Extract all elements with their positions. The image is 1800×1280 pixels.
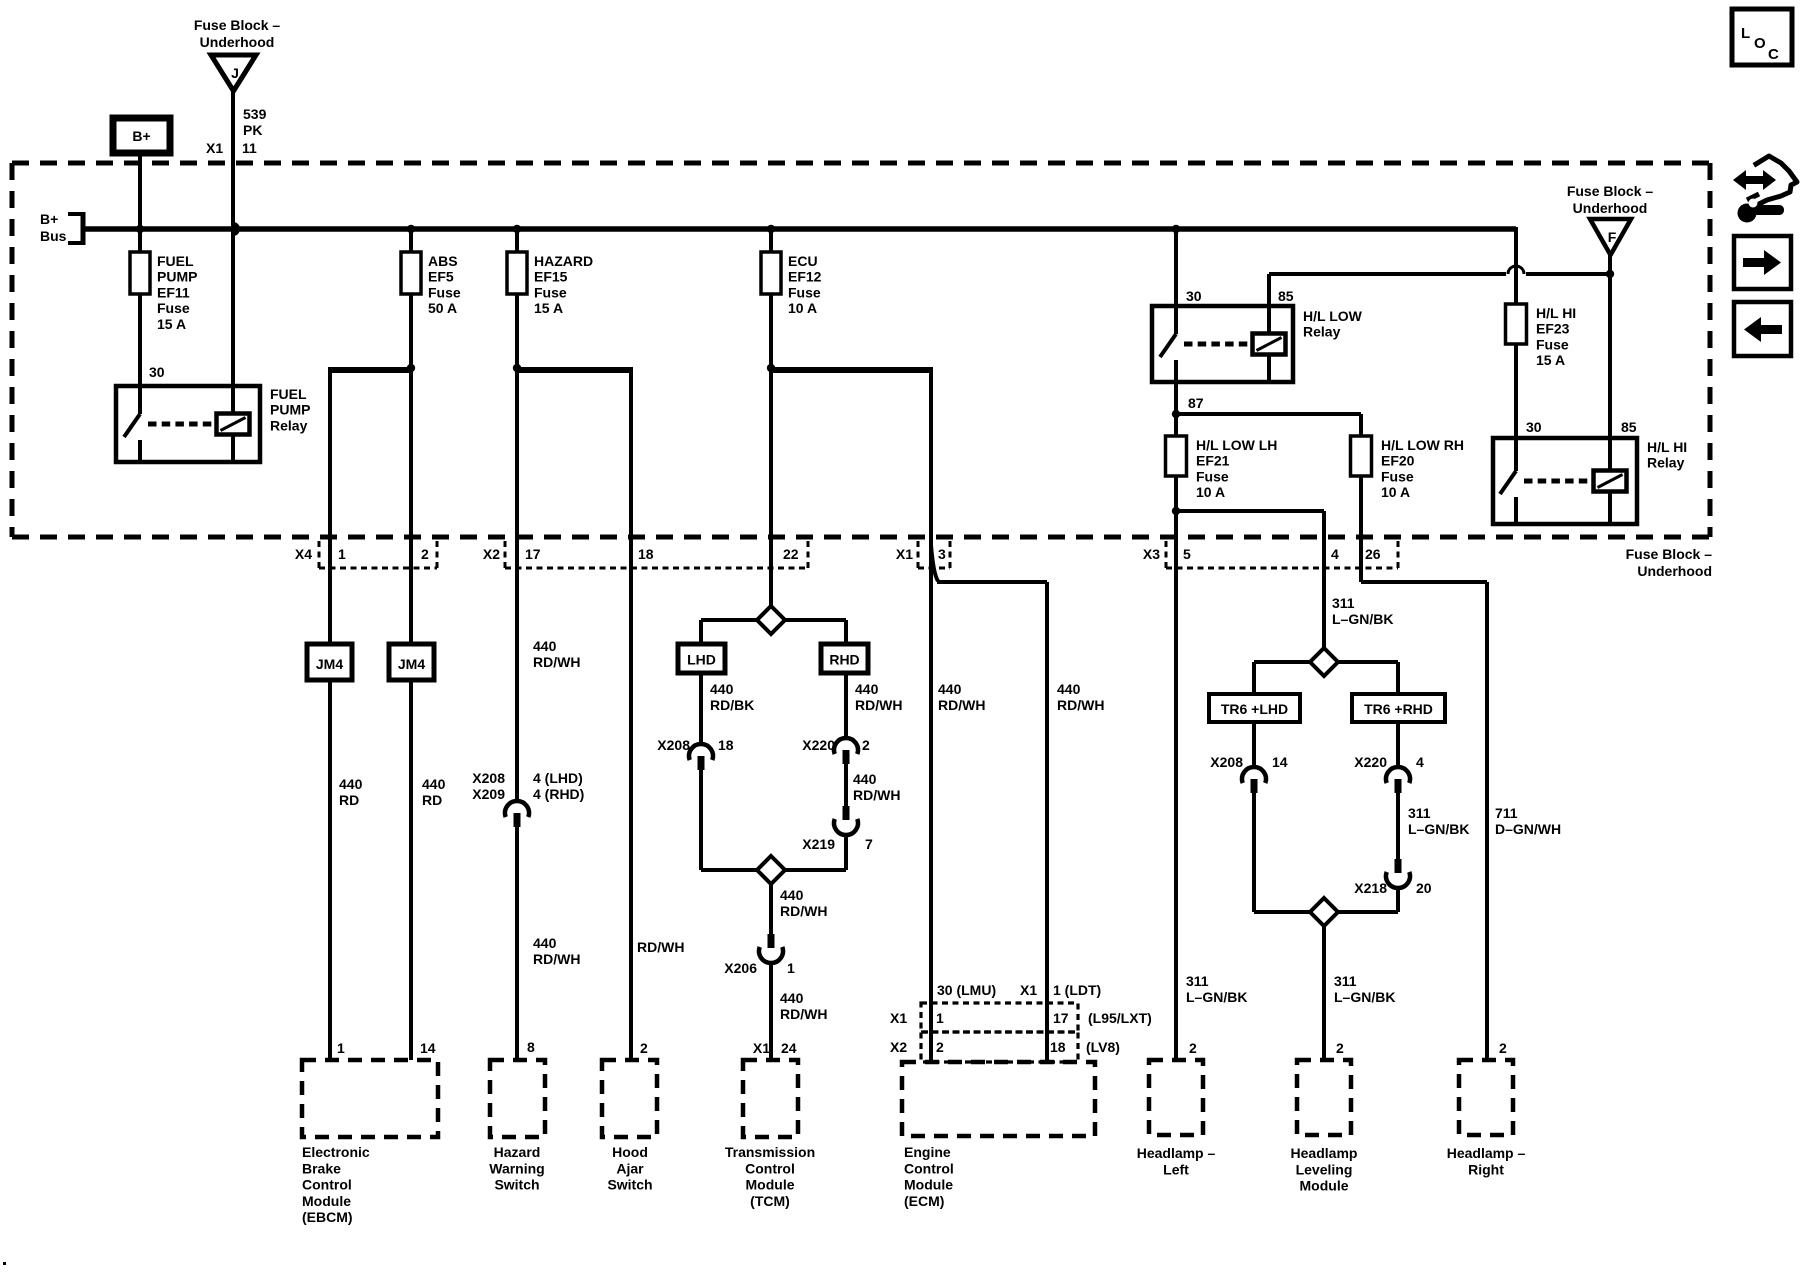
svg-text:Right: Right bbox=[1468, 1161, 1504, 1177]
svg-text:ABS: ABS bbox=[428, 253, 458, 269]
svg-text:10 A: 10 A bbox=[788, 300, 817, 316]
svg-text:26: 26 bbox=[1365, 546, 1381, 562]
svg-text:(EBCM): (EBCM) bbox=[302, 1209, 353, 1225]
svg-text:11: 11 bbox=[242, 140, 257, 156]
svg-text:D–GN/WH: D–GN/WH bbox=[1495, 821, 1561, 837]
svg-text:Control: Control bbox=[745, 1160, 795, 1176]
svg-text:PUMP: PUMP bbox=[270, 402, 310, 418]
svg-text:Electronic: Electronic bbox=[302, 1144, 370, 1160]
svg-text:X209: X209 bbox=[472, 786, 505, 802]
svg-text:X220: X220 bbox=[1354, 754, 1387, 770]
svg-text:(ECM): (ECM) bbox=[904, 1193, 944, 1209]
svg-text:C: C bbox=[1768, 46, 1779, 63]
svg-text:L–GN/BK: L–GN/BK bbox=[1332, 611, 1393, 627]
svg-text:Fuse Block –: Fuse Block – bbox=[194, 17, 281, 33]
svg-text:X208: X208 bbox=[1210, 754, 1243, 770]
svg-text:RD/WH: RD/WH bbox=[853, 787, 900, 803]
svg-text:Module: Module bbox=[302, 1193, 351, 1209]
svg-text:HAZARD: HAZARD bbox=[534, 253, 593, 269]
svg-text:18: 18 bbox=[638, 546, 654, 562]
svg-text:H/L HI: H/L HI bbox=[1536, 305, 1576, 321]
svg-text:X1: X1 bbox=[896, 546, 913, 562]
svg-text:X2: X2 bbox=[890, 1039, 907, 1055]
svg-text:1 (LDT): 1 (LDT) bbox=[1053, 982, 1101, 998]
svg-text:FUEL: FUEL bbox=[270, 386, 307, 402]
svg-text:Headlamp: Headlamp bbox=[1291, 1145, 1358, 1161]
svg-text:Fuse: Fuse bbox=[788, 284, 821, 300]
svg-text:15 A: 15 A bbox=[534, 300, 563, 316]
svg-text:Hood: Hood bbox=[612, 1144, 648, 1160]
svg-text:L–GN/BK: L–GN/BK bbox=[1334, 989, 1395, 1005]
svg-text:RD/WH: RD/WH bbox=[637, 939, 684, 955]
svg-text:L–GN/BK: L–GN/BK bbox=[1186, 989, 1247, 1005]
svg-text:1: 1 bbox=[337, 1040, 345, 1056]
svg-text:PUMP: PUMP bbox=[157, 269, 197, 285]
svg-text:Hazard: Hazard bbox=[494, 1144, 541, 1160]
svg-text:87: 87 bbox=[1188, 395, 1204, 411]
svg-text:5: 5 bbox=[1183, 546, 1191, 562]
svg-text:EF12: EF12 bbox=[788, 269, 822, 285]
svg-text:FUEL: FUEL bbox=[157, 253, 194, 269]
svg-text:2: 2 bbox=[421, 546, 429, 562]
svg-text:711: 711 bbox=[1495, 805, 1518, 821]
svg-text:Fuse: Fuse bbox=[1381, 468, 1414, 484]
svg-text:30 (LMU): 30 (LMU) bbox=[937, 982, 996, 998]
svg-text:L: L bbox=[1741, 25, 1750, 42]
svg-text:85: 85 bbox=[1621, 419, 1637, 435]
svg-text:RHD: RHD bbox=[829, 652, 859, 668]
svg-text:50 A: 50 A bbox=[428, 300, 457, 316]
svg-text:EF20: EF20 bbox=[1381, 453, 1415, 469]
svg-text:20: 20 bbox=[1416, 880, 1432, 896]
svg-text:2: 2 bbox=[862, 737, 870, 753]
svg-text:H/L HI: H/L HI bbox=[1647, 439, 1687, 455]
svg-text:10 A: 10 A bbox=[1381, 484, 1410, 500]
svg-text:RD/WH: RD/WH bbox=[780, 903, 827, 919]
svg-text:2: 2 bbox=[1336, 1040, 1344, 1056]
svg-text:O: O bbox=[1754, 35, 1766, 52]
svg-text:Underhood: Underhood bbox=[200, 34, 275, 50]
svg-text:Control: Control bbox=[904, 1160, 954, 1176]
svg-text:14: 14 bbox=[420, 1040, 436, 1056]
svg-text:X208: X208 bbox=[472, 770, 505, 786]
svg-text:EF5: EF5 bbox=[428, 269, 454, 285]
svg-text:X2: X2 bbox=[483, 546, 500, 562]
svg-text:B+: B+ bbox=[40, 211, 58, 227]
svg-text:RD/WH: RD/WH bbox=[533, 654, 580, 670]
svg-text:2: 2 bbox=[936, 1039, 944, 1055]
svg-text:85: 85 bbox=[1278, 288, 1294, 304]
svg-text:H/L LOW: H/L LOW bbox=[1303, 308, 1363, 324]
svg-text:X219: X219 bbox=[802, 836, 835, 852]
svg-text:Fuse: Fuse bbox=[534, 284, 567, 300]
svg-text:Control: Control bbox=[302, 1177, 352, 1193]
svg-text:30: 30 bbox=[1526, 419, 1542, 435]
svg-text:Fuse: Fuse bbox=[1536, 336, 1569, 352]
svg-text:X1: X1 bbox=[890, 1010, 907, 1026]
svg-text:(L95/LXT): (L95/LXT) bbox=[1088, 1010, 1152, 1026]
svg-text:X220: X220 bbox=[802, 737, 835, 753]
svg-text:(TCM): (TCM) bbox=[750, 1193, 790, 1209]
svg-text:RD/WH: RD/WH bbox=[855, 697, 902, 713]
svg-text:Fuse: Fuse bbox=[428, 284, 461, 300]
svg-text:TR6 +LHD: TR6 +LHD bbox=[1221, 701, 1288, 717]
svg-text:440: 440 bbox=[853, 771, 877, 787]
svg-text:Switch: Switch bbox=[494, 1177, 539, 1193]
svg-text:22: 22 bbox=[783, 546, 799, 562]
svg-text:ECU: ECU bbox=[788, 253, 818, 269]
svg-text:Fuse Block –: Fuse Block – bbox=[1567, 183, 1654, 199]
svg-text:539: 539 bbox=[243, 106, 267, 122]
svg-text:Leveling: Leveling bbox=[1296, 1161, 1353, 1177]
svg-text:EF21: EF21 bbox=[1196, 453, 1230, 469]
svg-text:17: 17 bbox=[525, 546, 541, 562]
svg-text:X1: X1 bbox=[206, 140, 223, 156]
svg-text:Relay: Relay bbox=[270, 417, 308, 433]
svg-text:440: 440 bbox=[422, 776, 446, 792]
svg-text:X1: X1 bbox=[1020, 982, 1037, 998]
svg-text:18: 18 bbox=[718, 737, 734, 753]
svg-text:440: 440 bbox=[1057, 681, 1081, 697]
svg-text:X1: X1 bbox=[753, 1040, 770, 1056]
svg-text:4: 4 bbox=[1416, 754, 1424, 770]
svg-text:RD/WH: RD/WH bbox=[533, 951, 580, 967]
svg-text:440: 440 bbox=[780, 990, 804, 1006]
svg-text:Module: Module bbox=[1300, 1178, 1349, 1194]
svg-text:(LV8): (LV8) bbox=[1086, 1039, 1120, 1055]
svg-text:1: 1 bbox=[936, 1010, 944, 1026]
svg-text:3: 3 bbox=[938, 546, 946, 562]
svg-text:Headlamp –: Headlamp – bbox=[1137, 1145, 1216, 1161]
svg-text:Brake: Brake bbox=[302, 1160, 341, 1176]
svg-text:X206: X206 bbox=[724, 960, 757, 976]
svg-text:Switch: Switch bbox=[607, 1177, 652, 1193]
svg-text:RD/WH: RD/WH bbox=[1057, 697, 1104, 713]
svg-text:2: 2 bbox=[1189, 1040, 1197, 1056]
svg-text:440: 440 bbox=[710, 681, 734, 697]
svg-text:TR6 +RHD: TR6 +RHD bbox=[1364, 701, 1433, 717]
svg-text:311: 311 bbox=[1334, 973, 1357, 989]
svg-text:RD/BK: RD/BK bbox=[710, 697, 754, 713]
svg-text:15 A: 15 A bbox=[157, 316, 186, 332]
svg-text:2: 2 bbox=[640, 1040, 648, 1056]
svg-text:30: 30 bbox=[149, 364, 165, 380]
svg-text:Warning: Warning bbox=[489, 1160, 544, 1176]
svg-text:10 A: 10 A bbox=[1196, 484, 1225, 500]
svg-text:X218: X218 bbox=[1354, 880, 1387, 896]
svg-text:440: 440 bbox=[533, 935, 557, 951]
svg-text:440: 440 bbox=[339, 776, 363, 792]
svg-text:Underhood: Underhood bbox=[1637, 563, 1712, 579]
svg-text:4: 4 bbox=[1331, 546, 1339, 562]
svg-text:Ajar: Ajar bbox=[616, 1160, 644, 1176]
svg-text:X4: X4 bbox=[295, 546, 312, 562]
svg-text:24: 24 bbox=[781, 1040, 797, 1056]
svg-text:X3: X3 bbox=[1143, 546, 1160, 562]
svg-text:440: 440 bbox=[938, 681, 962, 697]
svg-text:F: F bbox=[1608, 229, 1617, 245]
svg-text:PK: PK bbox=[243, 122, 262, 138]
svg-text:8: 8 bbox=[527, 1039, 535, 1055]
svg-text:1: 1 bbox=[338, 546, 346, 562]
svg-text:440: 440 bbox=[855, 681, 879, 697]
svg-text:311: 311 bbox=[1408, 805, 1431, 821]
svg-text:H/L LOW LH: H/L LOW LH bbox=[1196, 437, 1277, 453]
svg-text:4 (LHD): 4 (LHD) bbox=[533, 770, 583, 786]
svg-text:1: 1 bbox=[787, 960, 795, 976]
svg-text:EF15: EF15 bbox=[534, 269, 568, 285]
svg-text:Module: Module bbox=[904, 1177, 953, 1193]
svg-text:L–GN/BK: L–GN/BK bbox=[1408, 821, 1469, 837]
svg-text:Transmission: Transmission bbox=[725, 1144, 815, 1160]
svg-text:Headlamp –: Headlamp – bbox=[1447, 1145, 1526, 1161]
svg-text:RD/WH: RD/WH bbox=[780, 1006, 827, 1022]
svg-text:4 (RHD): 4 (RHD) bbox=[533, 786, 584, 802]
svg-text:440: 440 bbox=[780, 887, 804, 903]
svg-text:X208: X208 bbox=[657, 737, 690, 753]
svg-text:Relay: Relay bbox=[1303, 324, 1341, 340]
svg-text:311: 311 bbox=[1332, 595, 1355, 611]
svg-text:2: 2 bbox=[1499, 1040, 1507, 1056]
svg-text:Bus: Bus bbox=[40, 228, 67, 244]
svg-text:EF23: EF23 bbox=[1536, 321, 1570, 337]
svg-text:15 A: 15 A bbox=[1536, 352, 1565, 368]
svg-text:RD: RD bbox=[339, 792, 359, 808]
svg-text:17: 17 bbox=[1053, 1010, 1069, 1026]
svg-text:Relay: Relay bbox=[1647, 455, 1685, 471]
svg-text:B+: B+ bbox=[132, 128, 150, 144]
svg-text:Engine: Engine bbox=[904, 1144, 951, 1160]
svg-text:Fuse: Fuse bbox=[1196, 468, 1229, 484]
svg-text:LHD: LHD bbox=[687, 652, 716, 668]
svg-text:Left: Left bbox=[1163, 1161, 1189, 1177]
svg-text:14: 14 bbox=[1272, 754, 1288, 770]
svg-text:RD: RD bbox=[422, 792, 442, 808]
svg-text:Fuse: Fuse bbox=[157, 300, 190, 316]
svg-text:440: 440 bbox=[533, 638, 557, 654]
svg-text:Fuse Block –: Fuse Block – bbox=[1626, 546, 1713, 562]
svg-text:18: 18 bbox=[1050, 1039, 1066, 1055]
svg-text:Module: Module bbox=[746, 1177, 795, 1193]
svg-text:JM4: JM4 bbox=[316, 656, 343, 672]
svg-text:EF11: EF11 bbox=[157, 284, 190, 300]
svg-text:30: 30 bbox=[1186, 288, 1202, 304]
svg-text:J: J bbox=[231, 65, 239, 81]
svg-text:JM4: JM4 bbox=[398, 656, 425, 672]
svg-text:311: 311 bbox=[1186, 973, 1209, 989]
svg-text:H/L LOW RH: H/L LOW RH bbox=[1381, 437, 1464, 453]
svg-text:7: 7 bbox=[865, 836, 873, 852]
svg-text:RD/WH: RD/WH bbox=[938, 697, 985, 713]
svg-text:Underhood: Underhood bbox=[1573, 200, 1648, 216]
